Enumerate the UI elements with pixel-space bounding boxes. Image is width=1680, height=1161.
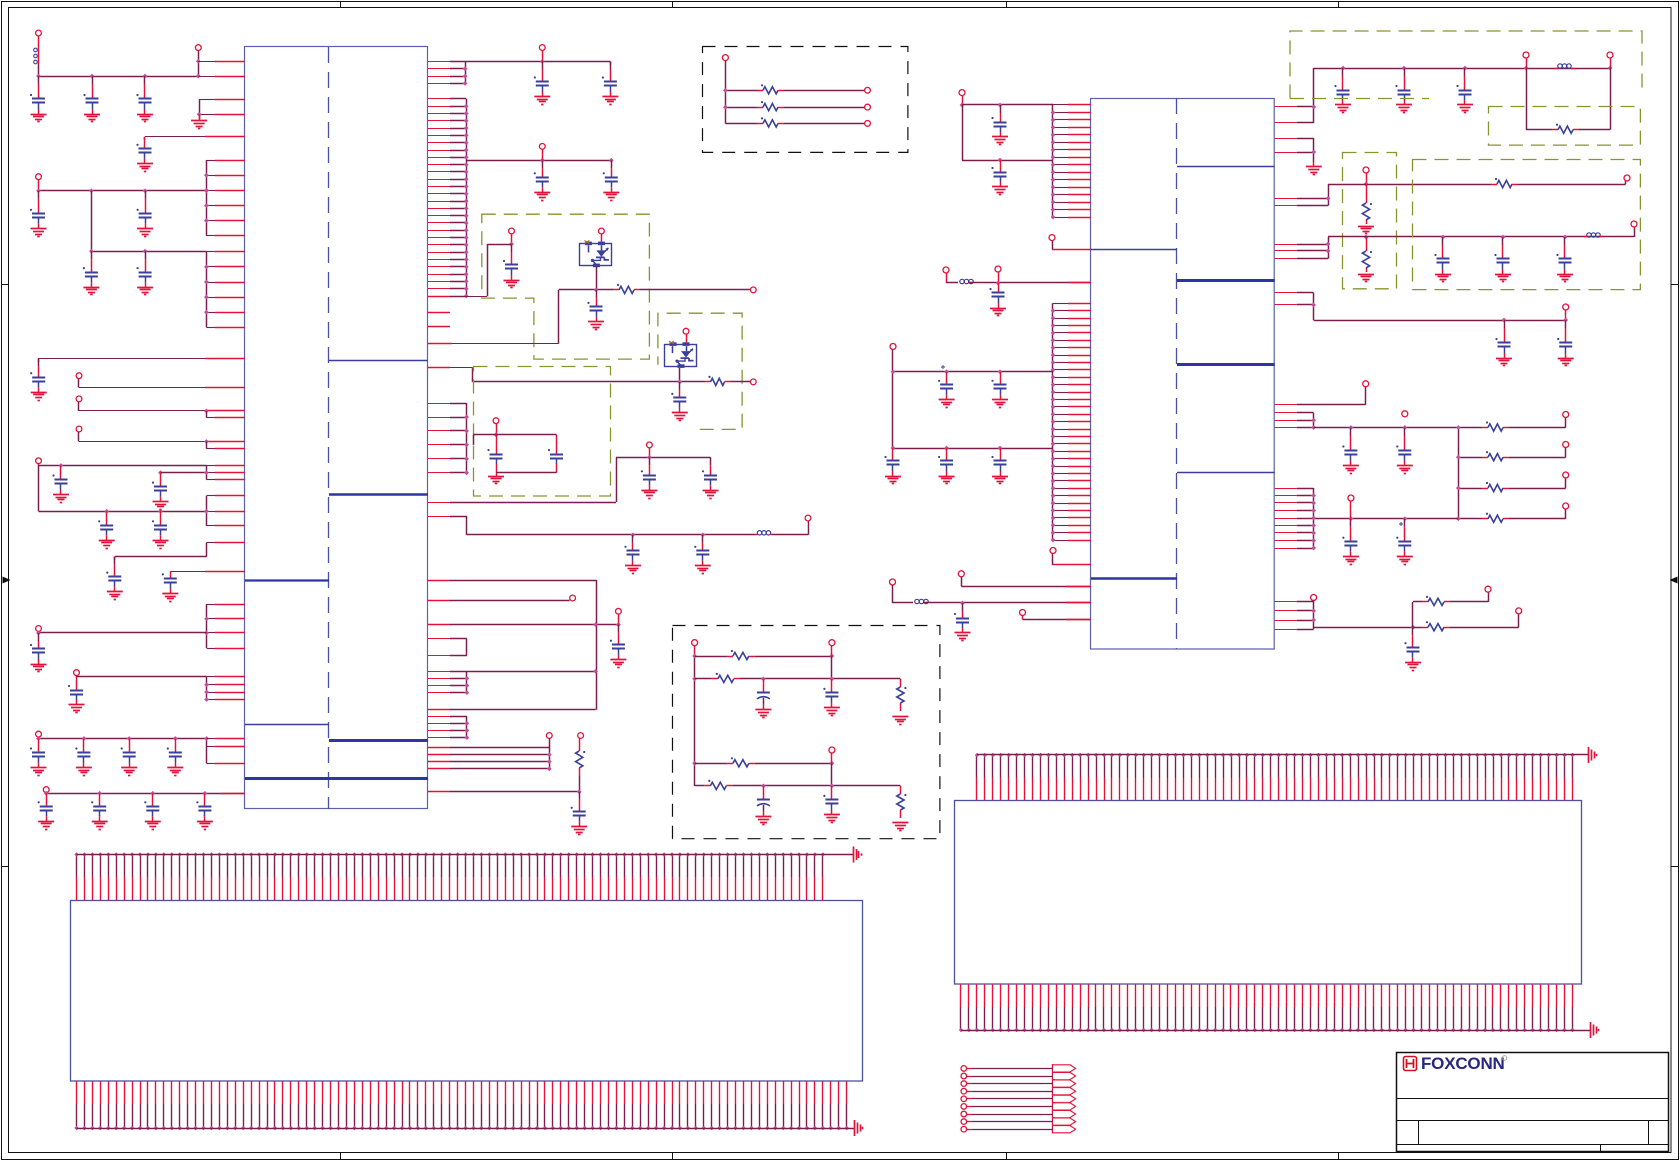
svg-text:FOXCONN: FOXCONN: [1421, 1054, 1505, 1073]
